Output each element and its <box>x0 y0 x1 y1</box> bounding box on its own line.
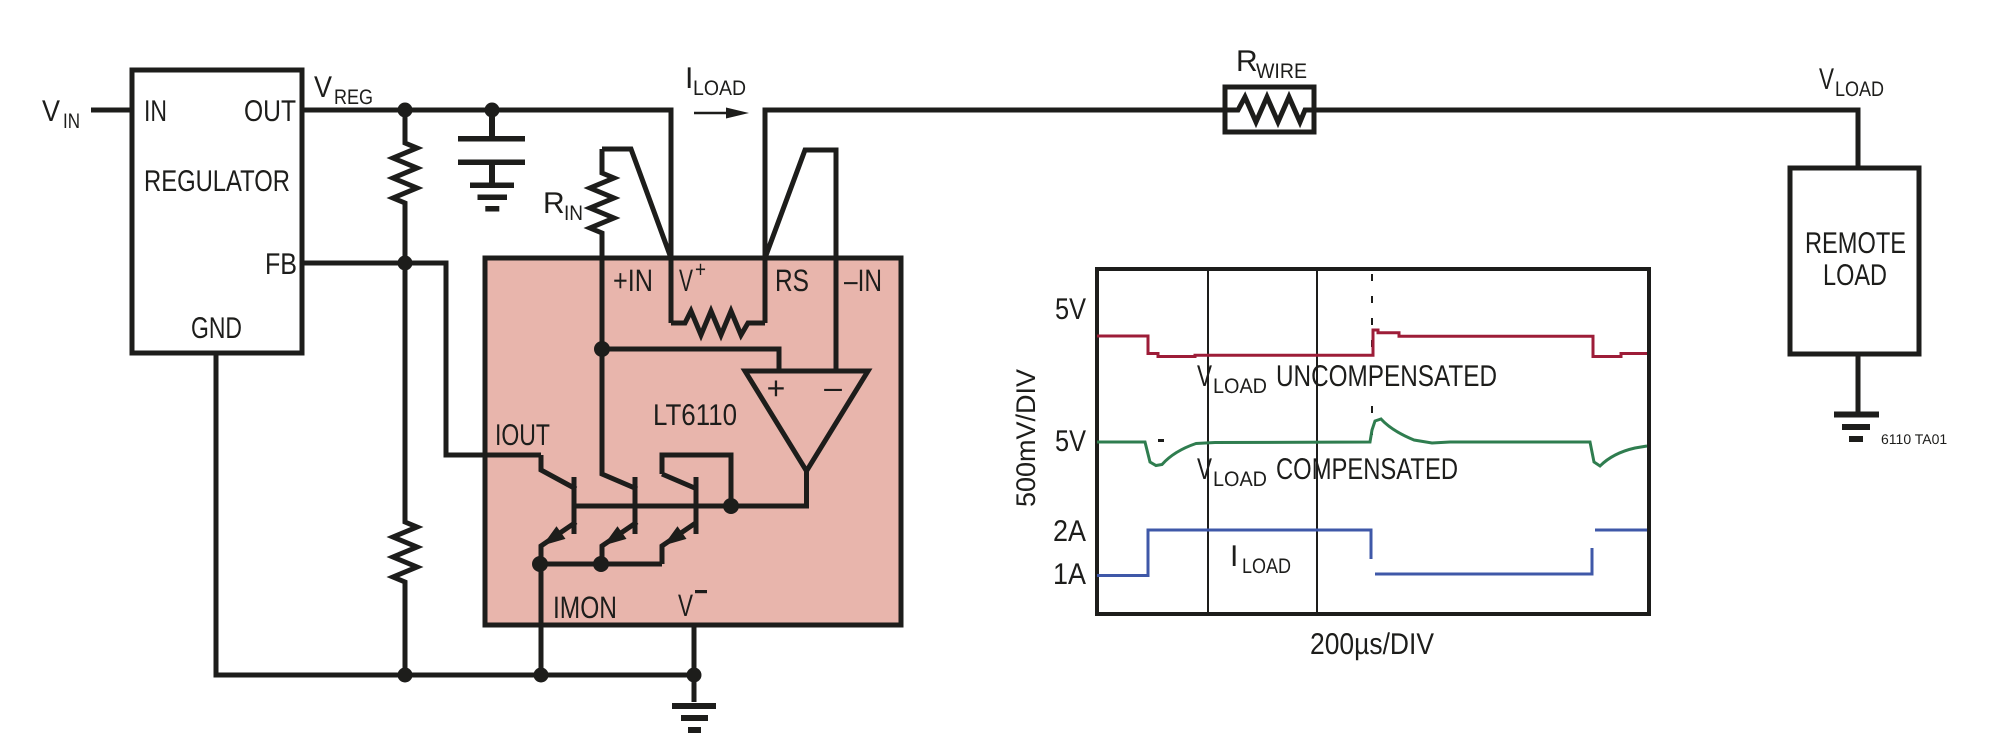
scope axis label 200us/DIV <box>1310 628 1434 661</box>
chip pin labels top <box>613 256 882 298</box>
wire IMON emitter rail <box>540 562 662 567</box>
svg-text:R: R <box>543 187 565 220</box>
svg-text:V: V <box>1197 360 1212 393</box>
scope label 2A <box>1053 515 1086 548</box>
resistor RWIRE label <box>1236 45 1307 83</box>
node junction dot VREG-C1 <box>485 103 500 118</box>
svg-text:200µs/DIV: 200µs/DIV <box>1310 628 1434 661</box>
svg-text:500mV/DIV: 500mV/DIV <box>1011 369 1041 507</box>
svg-text:R: R <box>1236 45 1258 78</box>
scope label 1A <box>1053 558 1086 591</box>
node junction dot rail-R2 <box>398 668 413 683</box>
regulator U2 box <box>132 70 302 353</box>
svg-text:LOAD: LOAD <box>693 77 746 100</box>
svg-text:GND: GND <box>191 312 242 345</box>
svg-text:REG: REG <box>334 86 373 109</box>
node junction dot rail-IMON <box>534 668 549 683</box>
svg-text:1A: 1A <box>1053 558 1086 591</box>
svg-text:IMON: IMON <box>553 590 617 625</box>
label IMON <box>553 590 617 625</box>
scope caption ILOAD <box>1230 540 1291 578</box>
node VIN label <box>42 95 80 133</box>
svg-text:V: V <box>42 95 60 128</box>
node VREG label <box>314 71 373 109</box>
scope vertical gridline 2 <box>1316 271 1318 612</box>
svg-text:V: V <box>678 588 693 623</box>
internal sense resistor between V+ and RS <box>671 311 765 335</box>
svg-text:IN: IN <box>144 95 167 128</box>
svg-text:5V: 5V <box>1055 293 1086 326</box>
scope dotted trigger line <box>1371 274 1373 435</box>
svg-text:–IN: –IN <box>844 263 882 298</box>
resistor RIN label <box>543 187 583 225</box>
svg-text:+: + <box>695 256 706 282</box>
svg-text:IN: IN <box>63 110 80 133</box>
label LT6110 <box>653 399 737 432</box>
svg-text:–: – <box>824 369 842 405</box>
wire RS pin to RWIRE rail <box>765 110 1225 323</box>
svg-text:+IN: +IN <box>613 263 653 298</box>
svg-text:LT6110: LT6110 <box>653 399 737 432</box>
node junction dot +IN <box>594 341 610 357</box>
svg-text:6110 TA01: 6110 TA01 <box>1881 431 1947 447</box>
label 6110 TA01 <box>1881 431 1947 447</box>
svg-text:LOAD: LOAD <box>1242 555 1291 578</box>
svg-text:V: V <box>1197 453 1212 486</box>
svg-text:COMPENSATED: COMPENSATED <box>1276 453 1458 486</box>
wire +IN to op-amp plus input <box>602 349 779 371</box>
scope trace VLOAD uncompensated red <box>1097 330 1647 357</box>
wire RS kelvin to -IN <box>765 150 836 371</box>
transistor Q3 diode connected <box>662 455 731 564</box>
node junction dot IMON-Q1 <box>532 556 548 572</box>
resistor R1 feedback divider top <box>393 110 417 263</box>
wire remote load to ground <box>1856 354 1861 412</box>
svg-text:IN: IN <box>564 202 583 225</box>
op-amp minus sign <box>824 369 842 405</box>
resistor RIN <box>590 149 614 349</box>
scope caption VLOAD UNCOMPENSATED <box>1197 360 1497 398</box>
svg-text:LOAD: LOAD <box>1823 259 1887 292</box>
wire bottom ground rail <box>214 673 695 678</box>
label Vminus <box>678 588 707 623</box>
resistor R2 feedback divider bottom <box>393 263 417 675</box>
scope plot frame <box>1097 269 1649 614</box>
wire regulator GND down <box>214 353 219 675</box>
svg-text:2A: 2A <box>1053 515 1086 548</box>
scope trigger level tick <box>1158 439 1164 442</box>
scope caption VLOAD COMPENSATED <box>1197 453 1458 491</box>
svg-text:LOAD: LOAD <box>1835 78 1884 101</box>
op-amp plus sign <box>767 370 786 406</box>
label ILOAD <box>685 62 746 100</box>
remote load box <box>1790 168 1919 354</box>
wire VREG rail from OUT to V+ pin <box>302 110 671 323</box>
node junction dot FB-divider <box>398 256 413 271</box>
wire IMON pin down <box>539 564 544 675</box>
node junction dot VREG-R1 <box>398 103 413 118</box>
ground symbol below remote load <box>1834 412 1879 443</box>
svg-text:V: V <box>1819 63 1834 96</box>
label IOUT <box>495 419 550 452</box>
ground symbol below C1 <box>470 183 514 212</box>
svg-text:V: V <box>314 71 332 104</box>
svg-text:RS: RS <box>775 263 809 298</box>
svg-text:+: + <box>767 370 786 406</box>
scope vertical gridline 1 <box>1207 271 1209 612</box>
node VLOAD label <box>1819 63 1884 101</box>
ground symbol below Vminus <box>672 703 716 733</box>
transistor Q1 <box>541 455 576 564</box>
svg-text:V: V <box>679 263 693 298</box>
scope label 5V middle <box>1055 425 1086 458</box>
regulator pin labels <box>144 95 297 345</box>
remote load label <box>1805 227 1906 292</box>
wire RWIRE to remote load <box>1314 110 1858 168</box>
svg-text:IOUT: IOUT <box>495 419 550 452</box>
node junction dot rail-Vminus <box>687 668 702 683</box>
svg-text:UNCOMPENSATED: UNCOMPENSATED <box>1276 360 1497 393</box>
wire Vminus pin down <box>692 625 697 702</box>
svg-text:LOAD: LOAD <box>1213 375 1267 398</box>
node junction dot IMON-Q2 <box>593 556 609 572</box>
op-amp U1A triangle <box>745 371 868 471</box>
svg-text:REGULATOR: REGULATOR <box>144 165 290 198</box>
arrow ILOAD <box>694 108 749 119</box>
scope label 5V top <box>1055 293 1086 326</box>
wire RIN kelvin to V+ <box>602 149 671 258</box>
scope trace ILOAD blue <box>1097 530 1647 576</box>
transistor Q2 <box>602 349 637 564</box>
svg-text:OUT: OUT <box>244 95 296 128</box>
scope axis label 500mV/DIV <box>1011 369 1041 507</box>
wire VIN input <box>91 108 132 113</box>
scope trace VLOAD compensated green <box>1097 419 1647 466</box>
capacitor C1 <box>458 110 525 183</box>
svg-text:WIRE: WIRE <box>1256 60 1307 83</box>
svg-text:LOAD: LOAD <box>1213 468 1267 491</box>
svg-text:5V: 5V <box>1055 425 1086 458</box>
node junction dot base rail <box>723 498 739 514</box>
resistor RWIRE boxed <box>1225 87 1314 132</box>
svg-text:FB: FB <box>265 248 297 281</box>
svg-text:REMOTE: REMOTE <box>1805 227 1906 260</box>
wire op-amp output to base rail <box>574 471 807 506</box>
svg-text:I: I <box>1230 540 1238 573</box>
wire FB to IOUT <box>302 263 541 455</box>
LT6110 chip body U1 <box>485 258 901 625</box>
